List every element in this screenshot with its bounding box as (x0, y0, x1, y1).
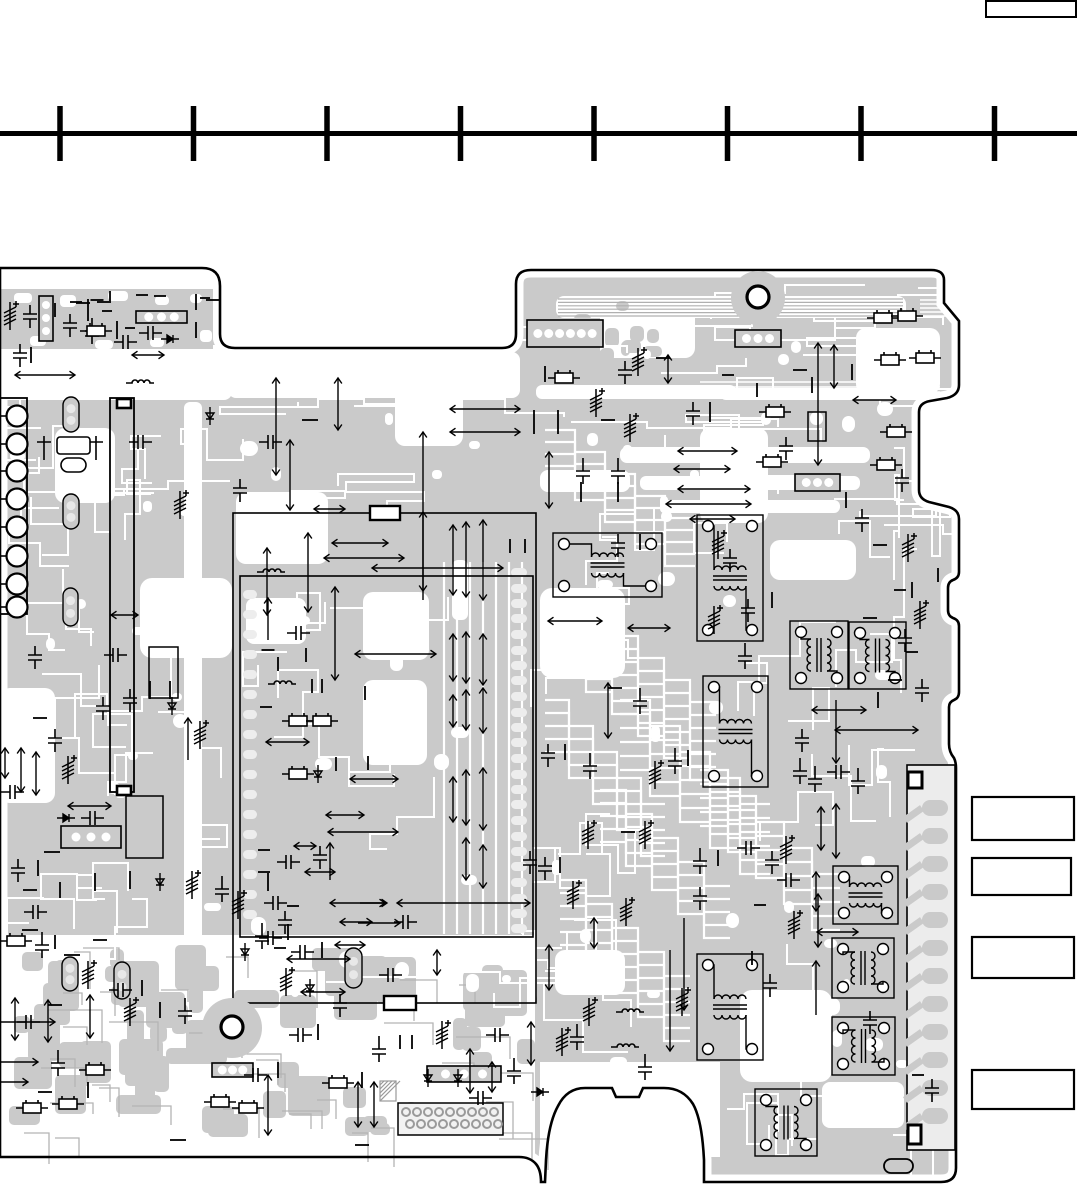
component box mid-left (149, 647, 178, 698)
transformer T7 (832, 938, 894, 998)
header top-left pads (136, 311, 187, 323)
edge connector key square top (908, 772, 922, 788)
oblong pad F (345, 948, 362, 988)
transformer T9 (755, 1089, 817, 1156)
multi-pin connector grid bottom (398, 1103, 503, 1135)
edge connector block (905, 765, 955, 1150)
oblong pad E (114, 962, 130, 999)
trace staircase texture center-bottom (560, 880, 690, 1041)
ruler tick marks (60, 106, 995, 161)
transformer T10 (697, 954, 763, 1060)
transformer T4 (790, 621, 848, 689)
mounting hole top-right (747, 286, 769, 308)
bus lines top middle (558, 299, 903, 316)
component box right-mid (808, 412, 826, 441)
vertical 3-pad header top-left (39, 296, 53, 341)
oblong pad D (62, 957, 78, 991)
3-pad connector near hole2 (212, 1063, 253, 1077)
transformer T3 (703, 676, 768, 787)
edge connector key square bottom (908, 1125, 921, 1144)
3-pad connector mid-right (795, 474, 840, 491)
horizontal stripes right edge top (700, 382, 940, 397)
connector J1 left edge (0, 398, 28, 618)
label box R1 (972, 797, 1074, 840)
thin traces bottom-left (24, 948, 548, 1170)
thin white trace texture (0, 280, 1077, 1179)
trace diagonal texture bottom-right (700, 770, 840, 930)
jumper white box on IC edge top (370, 506, 400, 520)
wire ruler baseline (0, 131, 1077, 136)
IC shield outer rectangle (233, 513, 536, 1003)
crosshatch region (380, 1081, 400, 1101)
PCB board outline - copper fill (0, 268, 959, 1182)
oblong pad A (63, 397, 79, 432)
mounting hole bottom-left (221, 1016, 243, 1038)
signal arrows (0, 343, 918, 1135)
trace staircase texture mid3 (545, 700, 665, 856)
transformer T5 (849, 622, 906, 689)
trace staircase texture right-mid (560, 592, 716, 780)
trace staircase texture mid4 (600, 790, 730, 938)
oblong pad C (63, 588, 78, 626)
3-pad connector near hole (735, 330, 781, 347)
copper mottle patches (0, 289, 662, 1137)
vertical stripe texture in IC (444, 562, 522, 934)
white pad pockets (10, 304, 931, 1072)
transformer T6 (833, 866, 898, 924)
oval pad bottom-right (884, 1159, 913, 1173)
label box R4 (972, 1070, 1074, 1109)
transformer T1 (553, 533, 662, 597)
label box R3 (972, 937, 1074, 978)
label box R2 (972, 858, 1071, 895)
3-pad connector bottom-middle (427, 1066, 501, 1082)
IC shield inner rectangle (240, 576, 533, 937)
edge finger stripes (920, 300, 1020, 316)
IC pin comb pads (243, 568, 527, 933)
shield can rectangle left (110, 398, 134, 792)
PCB board outline stroke (0, 268, 959, 1182)
trace staircase right of IC (545, 430, 695, 566)
single arrows (184, 512, 820, 1015)
jumper white box on IC edge bottom (384, 996, 416, 1010)
shield jumper box bottom (117, 786, 131, 795)
component box below shield (126, 796, 163, 858)
white trace channels (0, 272, 940, 1157)
mounting hole bottom-left copper pad (202, 998, 262, 1058)
mounting hole top-right copper pad (731, 271, 785, 325)
PCB board inner white margin (0, 268, 959, 1182)
connector CN2 top middle (527, 320, 603, 347)
small component glyphs (0, 291, 941, 1145)
transformer T2 (697, 515, 763, 641)
pad block mid-left (61, 826, 121, 848)
oblong pad B (63, 494, 79, 529)
shield jumper box top (117, 399, 131, 408)
transformer T8 (832, 1017, 895, 1075)
trace staircase texture right-mid2 (620, 700, 770, 874)
crystal X1 (37, 436, 103, 472)
label box top-right (986, 1, 1076, 17)
